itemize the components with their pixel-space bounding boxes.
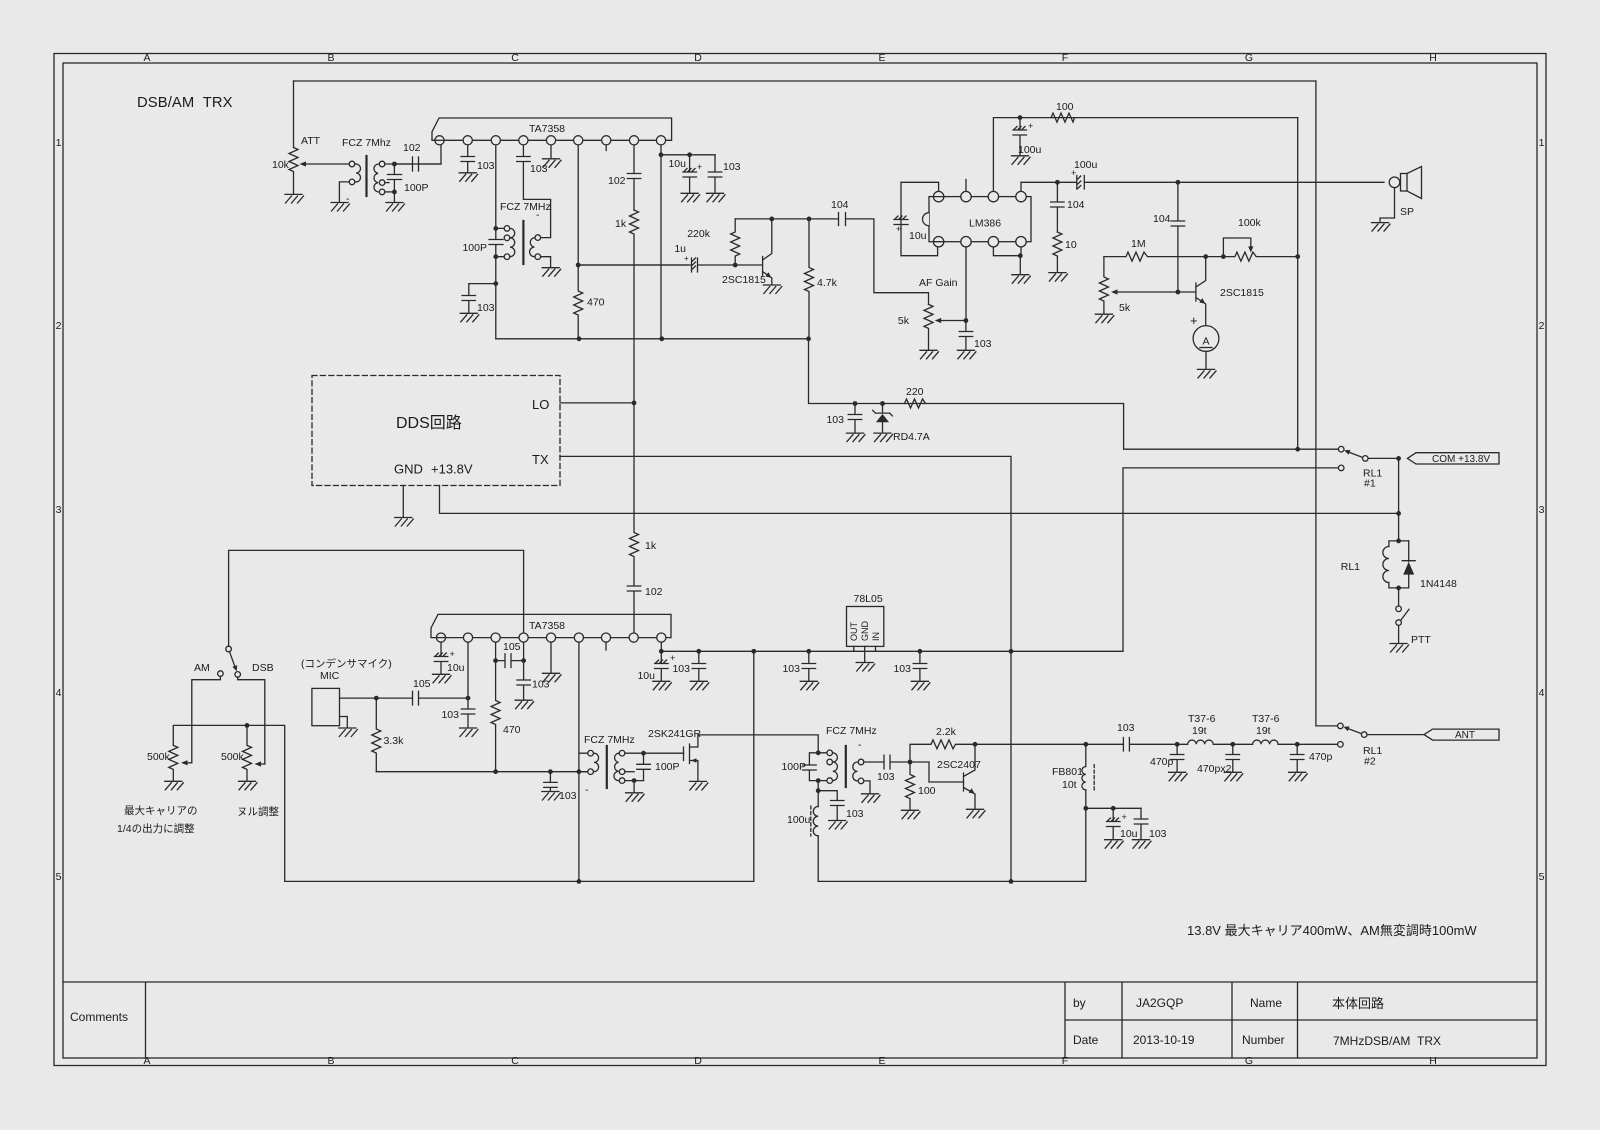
wire 13.8V RX rail down: [1297, 118, 1299, 450]
svg-text:1k: 1k: [615, 218, 627, 230]
svg-text:100P: 100P: [404, 182, 429, 194]
wire collector node: [772, 218, 839, 220]
ground: [626, 793, 645, 802]
svg-text:2: 2: [1539, 320, 1545, 332]
wire U1 pin4 chain: [522, 140, 524, 155]
svg-text:10t: 10t: [1062, 779, 1077, 791]
ground: [515, 700, 534, 709]
wire collector line: [975, 743, 1123, 745]
wire T3 sec mid stub: [625, 771, 634, 773]
wire RX bus drop to RL1#2: [1316, 81, 1338, 726]
wire T1 primary cold: [339, 182, 349, 202]
wire to ANT: [1367, 734, 1424, 736]
ground: [542, 268, 561, 277]
ground: [829, 821, 848, 830]
ground: [967, 809, 986, 818]
svg-text:本体回路: 本体回路: [1332, 996, 1384, 1011]
svg-text:100u: 100u: [787, 814, 811, 826]
svg-text:H: H: [1429, 52, 1437, 64]
ground: [690, 681, 709, 690]
svg-text:470p: 470p: [1309, 751, 1333, 763]
capacitor 103: [708, 155, 722, 193]
svg-text:COM +13.8V: COM +13.8V: [1432, 454, 1490, 465]
flag COM +13.8V: [1407, 453, 1499, 464]
resistor 1k TX lo: [630, 403, 639, 585]
ground: [339, 728, 358, 737]
diode 1N4148: [1402, 541, 1415, 588]
node lpf2: [1230, 742, 1235, 747]
wire U1 pin6 down: [577, 140, 579, 265]
ground: [847, 433, 866, 442]
ground: [1105, 840, 1124, 849]
svg-text:2SC2407: 2SC2407: [937, 759, 981, 771]
svg-text:10u: 10u: [1120, 828, 1138, 840]
ground: [1012, 156, 1031, 165]
svg-text:FCZ 7MHz: FCZ 7MHz: [500, 201, 551, 213]
svg-text:LO: LO: [532, 397, 549, 412]
svg-text:+: +: [1071, 168, 1076, 178]
svg-text:10u: 10u: [668, 158, 686, 170]
wire rail branch down: [753, 651, 755, 881]
svg-text:104: 104: [1067, 199, 1085, 211]
wire TX 13.8V branch: [1123, 468, 1338, 651]
svg-text:Comments: Comments: [70, 1010, 128, 1024]
relay switch RL1 #1: [1338, 446, 1344, 452]
capacitor 103 lpf in: [1123, 738, 1177, 752]
resistor 470: [574, 265, 583, 339]
wire U3 pin6 down: [578, 638, 580, 882]
svg-text:10u: 10u: [637, 670, 655, 682]
switch AM/DSB: [226, 646, 232, 652]
wire DDS gnd stub: [402, 486, 404, 517]
capacitor 103 pa: [1134, 808, 1148, 839]
svg-text:78L05: 78L05: [854, 593, 883, 605]
wire collector top: [735, 218, 772, 220]
wire U1 pin3 to T2: [495, 140, 497, 228]
capacitor 104 meter tap: [1176, 180, 1181, 185]
capacitor 10u U3 pin1: [434, 638, 448, 674]
svg-text:F: F: [1062, 1055, 1068, 1067]
svg-text:104: 104: [1153, 213, 1171, 225]
potentiometer ATT 10k: [293, 81, 295, 148]
svg-text:2013-10-19: 2013-10-19: [1133, 1033, 1195, 1047]
svg-text:100P: 100P: [462, 242, 487, 254]
svg-text:DSB: DSB: [252, 662, 274, 674]
svg-text:103: 103: [846, 808, 864, 820]
capacitor 10u rail: [655, 651, 669, 680]
wire U1 pin7 stub: [605, 140, 607, 150]
svg-text:103: 103: [723, 161, 741, 173]
svg-text:GND: GND: [394, 462, 423, 477]
svg-text:500k: 500k: [147, 751, 171, 763]
wire MIC out: [340, 697, 413, 699]
ground: [1289, 772, 1308, 781]
svg-text:103: 103: [477, 302, 495, 314]
ground: [1372, 223, 1391, 232]
resistor 470 U3: [491, 661, 500, 772]
ground: [165, 781, 184, 790]
capacitor 100u electrolytic: [1013, 118, 1027, 155]
svg-text:+: +: [684, 254, 689, 263]
node base: [733, 263, 738, 268]
wire U3 pin4 down: [523, 638, 525, 661]
svg-text:103: 103: [477, 160, 495, 172]
capacitor 102: [394, 157, 441, 171]
ground: [331, 203, 350, 212]
wire pin3 branch down: [495, 257, 497, 339]
transistor Q2 2SC1815 meter: [1178, 257, 1206, 326]
svg-text:#1: #1: [1364, 478, 1376, 490]
capacitor 102 TX lo: [627, 586, 641, 633]
svg-text:100P: 100P: [655, 761, 680, 773]
svg-text:RD4.7A: RD4.7A: [893, 431, 930, 443]
svg-text:TA7358: TA7358: [529, 123, 565, 135]
capacitor 103 drain: [818, 791, 844, 820]
wire output pin5: [1021, 182, 1057, 191]
ground: [433, 674, 452, 683]
svg-text:FCZ 7Mhz: FCZ 7Mhz: [342, 137, 391, 149]
ground: [1049, 273, 1068, 282]
ground: [543, 673, 562, 682]
svg-text:IN: IN: [871, 632, 881, 641]
inductor T37-6 #1: [1177, 740, 1233, 744]
ground: [653, 681, 672, 690]
wire gnd bus left: [285, 880, 754, 882]
snubber 104: [1051, 182, 1065, 232]
ground: [1133, 840, 1152, 849]
wire bias rail: [809, 339, 1339, 449]
svg-text:1N4148: 1N4148: [1420, 578, 1457, 590]
svg-text:102: 102: [608, 175, 626, 187]
svg-text:4: 4: [1539, 687, 1545, 699]
svg-text:+: +: [1028, 121, 1033, 131]
svg-text:1M: 1M: [1131, 238, 1146, 250]
svg-text:FB801: FB801: [1052, 766, 1083, 778]
transistor Q1 2SC1815: [735, 219, 772, 284]
flag ANT: [1424, 729, 1499, 740]
svg-text:JA2GQP: JA2GQP: [1136, 996, 1183, 1010]
svg-text:G: G: [1245, 52, 1253, 64]
svg-text:2SC1815: 2SC1815: [1220, 287, 1264, 299]
box DDS circuit: [312, 376, 560, 486]
svg-text:103: 103: [974, 338, 992, 350]
svg-text:1: 1: [56, 137, 62, 149]
wire U3 pin7 stub: [605, 638, 607, 650]
wire T4 sec cold: [864, 781, 870, 793]
ground: [543, 159, 562, 168]
svg-text:#2: #2: [1364, 756, 1376, 768]
svg-text:102: 102: [403, 142, 421, 154]
ground: [957, 350, 976, 359]
speaker SP: [1389, 177, 1400, 188]
capacitor 100P T2: [489, 228, 503, 256]
resistor 10: [1053, 232, 1062, 272]
svg-text:B: B: [327, 52, 334, 64]
regulator 78L05: [847, 607, 884, 647]
resistor 1k: [630, 210, 639, 403]
svg-text:FCZ 7MHz: FCZ 7MHz: [584, 734, 635, 746]
svg-text:1/4の出力に調整: 1/4の出力に調整: [117, 822, 195, 835]
wire carrier line: [173, 725, 284, 881]
svg-text:Name: Name: [1250, 996, 1282, 1010]
svg-text:DDS回路: DDS回路: [396, 414, 462, 432]
ground: [395, 518, 414, 527]
wire gain loop pin1: [901, 182, 939, 255]
resistor 220: [905, 399, 926, 408]
svg-text:103: 103: [782, 663, 800, 675]
wire DSB to pot2 wiper: [238, 677, 265, 764]
potentiometer 500k #2: [243, 725, 252, 780]
ground: [386, 203, 405, 212]
node lpf1: [1175, 742, 1180, 747]
wire throw to COM node: [1368, 458, 1399, 541]
svg-text:C: C: [511, 1055, 519, 1067]
svg-text:100u: 100u: [1074, 159, 1098, 171]
svg-text:+: +: [697, 162, 702, 172]
capacitor 103 bias: [853, 401, 858, 406]
inductor 100u choke: [817, 791, 819, 807]
svg-text:H: H: [1429, 1055, 1437, 1067]
capacitor 105 mic: [413, 691, 469, 705]
svg-text:7MHzDSB/AM TRX: 7MHzDSB/AM TRX: [1333, 1034, 1441, 1048]
op-amp U1 TA7358 body: [432, 118, 672, 140]
svg-text:+: +: [1190, 313, 1198, 328]
capacitor 103 vol: [959, 321, 973, 350]
svg-text:103: 103: [441, 709, 459, 721]
svg-text:103: 103: [826, 414, 844, 426]
svg-text:10u: 10u: [447, 662, 465, 674]
capacitor 102 pin8: [627, 174, 641, 211]
svg-text:500k: 500k: [221, 751, 245, 763]
ground: [1224, 772, 1243, 781]
wire pin9 bypass branch: [661, 154, 715, 156]
svg-text:103: 103: [559, 790, 577, 802]
svg-text:AF Gain: AF Gain: [919, 277, 958, 289]
wire decouple node: [1083, 806, 1088, 811]
wire U3 pin2: [467, 638, 469, 699]
ground: [285, 194, 304, 203]
capacitor 103 pin2: [461, 157, 475, 173]
svg-text:2.2k: 2.2k: [936, 726, 957, 738]
node lpf3: [1295, 742, 1300, 747]
title block: [63, 982, 1537, 1058]
potentiometer 5k meter: [1099, 257, 1108, 314]
svg-text:105: 105: [503, 641, 521, 653]
svg-text:4: 4: [56, 687, 62, 699]
wire TX: [560, 456, 1011, 881]
relay coil RL1: [1396, 539, 1401, 544]
svg-text:2SC1815: 2SC1815: [722, 274, 766, 286]
svg-text:1k: 1k: [645, 540, 657, 552]
svg-text:2: 2: [56, 320, 62, 332]
wire collector to 100k: [1206, 256, 1224, 258]
svg-text:LM386: LM386: [969, 218, 1001, 230]
ground: [689, 781, 708, 790]
svg-text:103: 103: [877, 771, 895, 783]
svg-text:-: -: [585, 784, 589, 796]
svg-text:MIC: MIC: [320, 670, 340, 682]
capacitor 103 rail1: [692, 651, 706, 680]
svg-text:100u: 100u: [1018, 144, 1042, 156]
svg-text:SP: SP: [1400, 206, 1414, 218]
ground: [1169, 772, 1188, 781]
wire mode switch to pin4: [229, 550, 524, 646]
svg-text:ヌル調整: ヌル調整: [237, 805, 279, 818]
ground: [763, 285, 782, 294]
resistor 3.3k: [372, 698, 381, 772]
capacitor 103 below T2: [462, 284, 496, 313]
ground: [911, 681, 930, 690]
svg-text:19t: 19t: [1192, 725, 1207, 737]
capacitor 103 rail2: [802, 651, 816, 680]
op-amp U3 TA7358 body: [431, 614, 671, 637]
svg-text:220k: 220k: [687, 228, 711, 240]
wire U3 pin5 gnd: [550, 638, 552, 673]
capacitor 104 coupling: [839, 213, 929, 305]
svg-text:OUT: OUT: [849, 622, 859, 642]
node sec hot junction: [392, 162, 397, 167]
capacitor 105 fb: [496, 654, 524, 668]
svg-text:105: 105: [413, 678, 431, 690]
resistor 1M: [1104, 252, 1206, 261]
wire supply bus right: [818, 880, 1086, 882]
capacitor 10u pa: [1107, 808, 1121, 839]
ground: [459, 173, 478, 182]
capacitor 470p #1: [1170, 744, 1184, 771]
svg-text:5: 5: [56, 871, 62, 883]
svg-text:100P: 100P: [781, 761, 806, 773]
ground: [681, 193, 700, 202]
wire audio line: [376, 771, 586, 773]
svg-text:+: +: [670, 653, 675, 663]
svg-text:3: 3: [1539, 504, 1545, 516]
svg-text:103: 103: [893, 663, 911, 675]
ground: [1198, 369, 1217, 378]
wire AM to pot1 wiper: [192, 676, 221, 762]
svg-text:+13.8V: +13.8V: [431, 462, 473, 477]
svg-text:(コンデンサマイク): (コンデンサマイク): [301, 657, 392, 670]
wire T3 sec to gate: [625, 752, 684, 754]
capacitor 103: [461, 698, 475, 727]
resistor 220k: [731, 219, 740, 265]
svg-text:by: by: [1073, 996, 1086, 1010]
ground: [1390, 644, 1409, 653]
svg-text:5k: 5k: [1119, 302, 1131, 314]
svg-text:B: B: [327, 1055, 334, 1067]
wire U3 pin3 chain: [495, 638, 497, 661]
svg-text:-: -: [858, 739, 862, 751]
wire LO: [560, 402, 634, 404]
svg-text:103: 103: [532, 679, 550, 691]
diode zener RD4.7A: [880, 401, 885, 406]
svg-text:最大キャリアの: 最大キャリアの: [124, 804, 198, 817]
svg-text:RL1: RL1: [1341, 561, 1360, 573]
wire U1 pin9 vcc: [660, 140, 662, 338]
capacitor 10u electrolytic: [683, 155, 697, 193]
svg-text:104: 104: [831, 199, 849, 211]
capacitor 100P: [388, 164, 402, 202]
svg-text:100k: 100k: [1238, 217, 1262, 229]
capacitor 103 coupling: [884, 755, 910, 769]
capacitor 100u out: [1057, 176, 1384, 190]
potentiometer 500k #1: [169, 745, 178, 780]
svg-text:D: D: [694, 52, 702, 64]
svg-text:10u: 10u: [909, 230, 927, 242]
svg-text:100: 100: [918, 785, 936, 797]
svg-text:5k: 5k: [898, 315, 910, 327]
capacitor 103 pin4: [517, 661, 531, 700]
ground: [920, 350, 939, 359]
ground: [856, 663, 875, 672]
svg-text:4.7k: 4.7k: [817, 277, 838, 289]
svg-text:470: 470: [587, 297, 605, 309]
ground: [902, 810, 921, 819]
wire DDS 13.8V feed: [440, 486, 1399, 514]
svg-text:103: 103: [1117, 722, 1135, 734]
svg-text:220: 220: [906, 386, 924, 398]
capacitor 1u electrolytic: [578, 258, 735, 272]
wire LM386 pin vol: [965, 247, 967, 321]
svg-text:TA7358: TA7358: [529, 620, 565, 632]
wire T1 sec hot: [385, 145, 441, 164]
wire supply rail TX: [661, 650, 1123, 652]
resistor 100 base: [906, 762, 915, 810]
ground: [800, 681, 819, 690]
svg-text:A: A: [143, 1055, 150, 1067]
wire pin7 stub: [965, 180, 967, 192]
wire U3 pin9 vcc: [660, 638, 662, 652]
box MIC: [312, 688, 340, 725]
inductor T37-6 #2: [1233, 740, 1338, 744]
svg-text:GND: GND: [860, 621, 870, 642]
capacitor 470p #3: [1290, 744, 1304, 771]
transistor Q4 2SC2407: [964, 744, 976, 808]
ground: [542, 792, 561, 801]
op-amp U2 LM386: [929, 197, 1031, 242]
svg-text:10k: 10k: [272, 159, 290, 171]
resistor 100: [1051, 113, 1075, 122]
ground: [862, 794, 881, 803]
IC U2 pins: [933, 191, 1026, 246]
svg-text:FCZ 7MHz: FCZ 7MHz: [826, 725, 877, 737]
wire T4 sec out: [864, 761, 884, 763]
svg-text:+: +: [450, 649, 455, 659]
svg-text:C: C: [511, 52, 519, 64]
ground: [1095, 314, 1114, 323]
svg-text:+: +: [1122, 812, 1127, 822]
wire drain to T4: [698, 735, 818, 753]
wire T3 sec cold: [625, 781, 644, 792]
svg-text:Date: Date: [1073, 1033, 1099, 1047]
wire base jog: [910, 762, 964, 782]
svg-text:470: 470: [503, 724, 521, 736]
svg-text:ATT: ATT: [301, 135, 321, 147]
svg-text:100: 100: [1056, 101, 1074, 113]
capacitor 100P T4: [803, 753, 819, 781]
wire T2 sec cold: [541, 257, 551, 267]
svg-text:470p: 470p: [1150, 756, 1174, 768]
capacitor 103 pin4: [517, 157, 551, 238]
svg-text:3.3k: 3.3k: [384, 735, 405, 747]
svg-text:103: 103: [1149, 828, 1167, 840]
svg-text:TX: TX: [532, 452, 549, 467]
ground: [874, 433, 893, 442]
svg-text:D: D: [694, 1055, 702, 1067]
svg-text:PTT: PTT: [1411, 634, 1431, 646]
svg-text:T37-6: T37-6: [1188, 713, 1216, 725]
svg-text:1: 1: [1539, 137, 1545, 149]
svg-text:+: +: [896, 224, 901, 234]
